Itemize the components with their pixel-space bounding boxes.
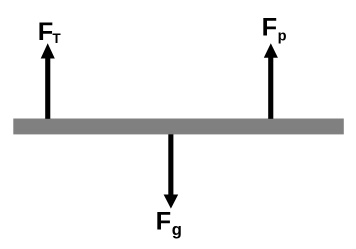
svg-text:T: T — [52, 31, 61, 46]
svg-text:g: g — [172, 220, 182, 239]
beam (gray bar) — [13, 119, 344, 135]
force arrow F_p — [264, 43, 278, 119]
svg-text:F: F — [262, 14, 278, 42]
force arrow F_g — [164, 134, 179, 208]
force arrow F_T — [41, 43, 55, 119]
svg-text:F: F — [38, 18, 54, 46]
svg-text:F: F — [156, 208, 172, 236]
svg-text:p: p — [278, 29, 287, 45]
